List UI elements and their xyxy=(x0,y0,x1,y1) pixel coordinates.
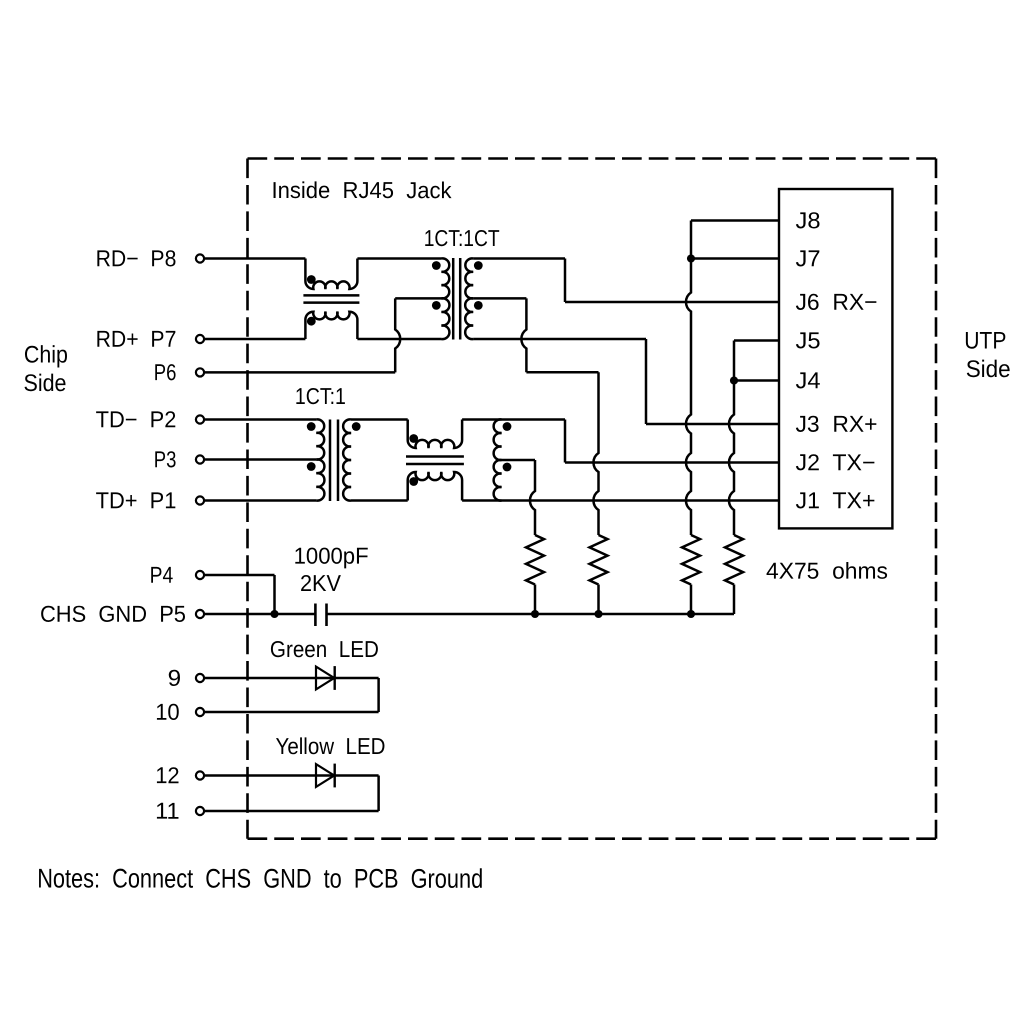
wire P3 to T2 primary center tap xyxy=(205,458,316,461)
terminal pin P3 xyxy=(196,455,204,463)
svg-text:J8: J8 xyxy=(795,207,820,233)
wire T1 secondary bottom right xyxy=(473,338,646,341)
pin label 9 xyxy=(168,665,182,691)
label Green LED xyxy=(270,636,379,662)
svg-text:J2 TX−: J2 TX− xyxy=(795,449,875,475)
choke T4 top dot xyxy=(409,434,418,443)
wire to J3 RX+ xyxy=(646,423,779,426)
junction dot J4 xyxy=(730,376,738,384)
svg-text:TD+ P1: TD+ P1 xyxy=(96,487,177,513)
terminal pin P2 xyxy=(196,415,204,423)
choke T4 bottom dot xyxy=(409,477,418,486)
terminal pin P1 xyxy=(196,496,204,504)
pin label J5 xyxy=(795,327,820,353)
svg-text:RD− P8: RD− P8 xyxy=(96,245,177,271)
svg-text:P6: P6 xyxy=(154,359,177,385)
wire J5 left xyxy=(734,339,779,342)
svg-text:J6 RX−: J6 RX− xyxy=(795,289,877,315)
wire R2 to ground bus xyxy=(597,585,600,615)
wire T2 secondary top to choke T4 xyxy=(351,418,408,421)
svg-text:1CT:1CT: 1CT:1CT xyxy=(424,225,500,251)
svg-text:4X75 ohms: 4X75 ohms xyxy=(766,558,888,584)
wire R1 to ground bus xyxy=(534,585,537,615)
choke T3 top dot xyxy=(307,275,316,284)
wire J7 to box xyxy=(691,257,779,260)
choke T3 core xyxy=(303,295,359,302)
pin label 10 xyxy=(155,699,180,725)
label UTP Side xyxy=(964,328,1011,384)
svg-text:Side: Side xyxy=(966,356,1011,383)
wire R3 to ground bus xyxy=(690,585,693,615)
pin label P6 xyxy=(154,359,177,385)
T2 secondary dot xyxy=(352,422,361,431)
svg-text:10: 10 xyxy=(155,699,180,725)
wire P5 to capacitor xyxy=(205,613,315,616)
wire W center tap right xyxy=(502,459,536,462)
terminal pin 11 xyxy=(196,807,204,815)
wire J8 left xyxy=(691,221,779,259)
wire choke T4 bottom to J1 TX+ xyxy=(462,499,779,502)
junction dot ground bus xyxy=(594,610,602,618)
pin label P4 xyxy=(150,562,174,588)
wire R4 to ground bus xyxy=(733,585,736,615)
wire down to J3 level xyxy=(645,339,648,424)
label 2KV xyxy=(300,570,342,596)
wire right to R2 column xyxy=(526,371,598,374)
resistor R2 75 ohm xyxy=(590,535,608,585)
svg-text:J4: J4 xyxy=(795,367,820,393)
wire P4 right xyxy=(205,574,275,577)
ground bus wire to resistors xyxy=(327,613,735,616)
terminal pin P6 xyxy=(196,368,204,376)
wire J7/J8 down to R3 (hops) xyxy=(686,259,691,536)
wire W center tap down to R1 (hop over J1 wire) xyxy=(530,460,535,535)
junction dot P4/P5 xyxy=(270,610,278,618)
transformer T1 secondary upper winding xyxy=(465,258,473,298)
transformer T2 primary lower winding xyxy=(316,459,324,500)
pin label P2 xyxy=(96,406,177,432)
terminal pin 12 xyxy=(196,771,204,779)
wire P2 to T2 primary top xyxy=(205,418,316,421)
choke T3 top winding xyxy=(305,259,357,290)
svg-text:J1 TX+: J1 TX+ xyxy=(795,487,875,513)
wire to J2 TX- xyxy=(565,461,779,464)
wire T1 secondary center tap right xyxy=(473,297,526,300)
transformer T2 secondary winding xyxy=(343,419,351,500)
pin label P3 xyxy=(154,446,177,472)
label 1CT:1 xyxy=(295,383,346,409)
dashed enclosure "Inside RJ45 Jack" boundary xyxy=(248,159,937,839)
RJ45 connector box xyxy=(779,189,892,528)
wire P1 to T2 primary bottom xyxy=(205,499,316,502)
transformer T1 primary lower winding xyxy=(442,298,450,339)
svg-text:9: 9 xyxy=(168,665,182,691)
pin label P7 xyxy=(96,326,177,352)
W lower dot xyxy=(503,463,512,472)
T1 secondary upper dot xyxy=(474,261,483,270)
transformer T1 primary upper winding xyxy=(442,258,450,298)
svg-text:Notes: Connect CHS GND to: Notes: Connect CHS GND to PCB Ground xyxy=(37,864,483,894)
pin label P1 xyxy=(96,487,177,513)
resistor R4 75 ohm xyxy=(725,535,743,585)
choke T3 bottom dot xyxy=(307,317,316,326)
choke T4 top winding xyxy=(408,420,462,449)
svg-text:11: 11 xyxy=(155,798,180,824)
wire loop pins 12-11 xyxy=(205,776,379,812)
wire choke T3 to T1 primary top xyxy=(357,257,441,260)
pin label J7 xyxy=(795,245,820,271)
terminal pin P8 xyxy=(196,254,204,262)
wire J5 down through J4 to R4 (hops) xyxy=(729,341,734,536)
svg-text:Side: Side xyxy=(23,370,66,397)
terminal pin P7 xyxy=(196,335,204,343)
svg-text:UTP: UTP xyxy=(964,328,1006,355)
wire T1 secondary top right xyxy=(473,257,565,260)
transformer T1 secondary lower winding xyxy=(465,298,473,339)
label 1000pF xyxy=(294,543,369,569)
diode D2 Yellow LED xyxy=(316,764,335,788)
transformer T2 core xyxy=(330,420,338,502)
choke T4 bottom winding xyxy=(408,472,462,501)
label 1CT:1CT xyxy=(424,225,500,251)
wire center tap down (hop over secondary bottom wire) xyxy=(521,298,526,372)
wire P8 to choke T3 top xyxy=(205,257,305,260)
junction dot ground bus xyxy=(531,610,539,618)
label 4X75 ohms xyxy=(766,558,888,584)
T2 primary lower dot xyxy=(307,462,316,471)
pin label 12 xyxy=(155,762,180,788)
svg-text:TD− P2: TD− P2 xyxy=(96,406,177,432)
svg-text:RD+ P7: RD+ P7 xyxy=(96,326,177,352)
junction dot ground bus xyxy=(687,610,695,618)
pin label 11 xyxy=(155,798,180,824)
pin label J2&#160; TX&#8722; xyxy=(795,449,875,475)
junction dot J7/J8 xyxy=(687,254,695,262)
resistor R1 75 ohm xyxy=(526,535,544,585)
svg-text:CHS GND P5: CHS GND P5 xyxy=(40,601,186,627)
svg-text:J7: J7 xyxy=(795,245,820,271)
T1 primary upper dot xyxy=(432,261,441,270)
wire to J6 RX- xyxy=(565,301,779,304)
T2 primary upper dot xyxy=(307,422,316,431)
wire loop pins 9-10 xyxy=(205,678,379,712)
svg-text:Chip: Chip xyxy=(24,342,68,369)
wire center tap down to P6 (hop over P7 wire) xyxy=(395,298,400,372)
terminal pin P5 xyxy=(196,610,204,618)
autotransformer W upper winding xyxy=(494,419,502,460)
wire to P6 terminal xyxy=(205,371,395,374)
wire T1 primary center tap xyxy=(395,297,441,300)
svg-text:Inside RJ45 Jack: Inside RJ45 Jack xyxy=(271,177,451,203)
svg-text:1000pF: 1000pF xyxy=(294,543,369,569)
svg-text:P3: P3 xyxy=(154,446,177,472)
wire down to J2 level xyxy=(564,420,567,463)
label Chip Side xyxy=(23,342,67,398)
autotransformer W lower winding xyxy=(494,460,502,501)
svg-text:Green LED: Green LED xyxy=(270,636,379,662)
svg-text:J3 RX+: J3 RX+ xyxy=(795,411,877,437)
capacitor C1 1000pF 2KV xyxy=(315,604,326,627)
transformer T2 primary upper winding xyxy=(316,419,324,459)
pin label P8 xyxy=(96,245,177,271)
wire P4 down to P5 line xyxy=(273,575,276,614)
pin label P5 xyxy=(40,601,186,627)
svg-text:P4: P4 xyxy=(150,562,174,588)
pin label J4 xyxy=(795,367,820,393)
wire P7 to choke T3 bottom xyxy=(205,338,305,341)
label Yellow LED xyxy=(275,733,385,759)
svg-text:1CT:1: 1CT:1 xyxy=(295,383,346,409)
note text xyxy=(37,864,483,894)
T1 primary lower dot xyxy=(432,301,441,310)
terminal pin 9 xyxy=(196,674,204,682)
W upper dot xyxy=(503,422,512,431)
resistor R3 75 ohm xyxy=(682,535,700,585)
terminal pin P4 xyxy=(196,571,204,579)
terminal pin 10 xyxy=(196,708,204,716)
wire choke T3 bottom to T1 primary bottom xyxy=(357,338,441,341)
wire J4 to box xyxy=(734,379,779,382)
wire down to J6 level xyxy=(564,259,567,303)
wire R2 column down (hops) xyxy=(593,372,598,535)
svg-text:Yellow LED: Yellow LED xyxy=(275,733,385,759)
svg-text:12: 12 xyxy=(155,762,180,788)
choke T4 core xyxy=(406,457,464,465)
label Inside RJ45 Jack xyxy=(271,177,451,203)
wire T2 secondary bottom to choke T4 xyxy=(351,499,408,502)
pin label J8 xyxy=(795,207,820,233)
diode D1 Green LED xyxy=(316,666,335,690)
svg-text:2KV: 2KV xyxy=(300,570,342,596)
wire choke T4 top to J2 corner xyxy=(462,418,565,421)
T1 secondary lower dot xyxy=(474,301,483,310)
pin label J6&#160; RX&#8722; xyxy=(795,289,877,315)
pin label J1&#160; TX+ xyxy=(795,487,875,513)
svg-text:J5: J5 xyxy=(795,327,820,353)
pin label J3&#160; RX+ xyxy=(795,411,877,437)
transformer T1 core xyxy=(453,258,460,340)
choke T3 bottom winding xyxy=(305,312,357,339)
